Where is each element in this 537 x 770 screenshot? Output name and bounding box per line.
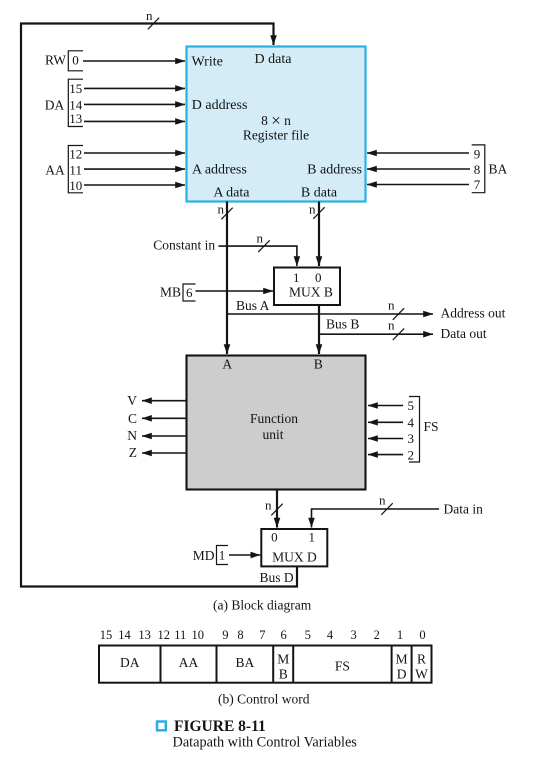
svg-text:1: 1 [219,548,226,563]
svg-text:8: 8 [237,628,243,642]
svg-text:B data: B data [301,185,338,200]
svg-text:MB: MB [160,285,181,300]
svg-text:A: A [222,357,232,372]
svg-text:(b) Control word: (b) Control word [218,692,310,707]
svg-text:A data: A data [213,185,250,200]
svg-text:15: 15 [100,628,113,642]
svg-text:14: 14 [118,628,131,642]
svg-text:10: 10 [69,178,82,193]
svg-text:DA: DA [45,97,65,112]
svg-text:7: 7 [474,177,481,192]
svg-text:MUX D: MUX D [272,549,317,564]
svg-text:0: 0 [315,270,322,285]
svg-text:M: M [396,652,408,667]
svg-text:A address: A address [192,163,247,178]
svg-text:4: 4 [408,415,415,430]
svg-text:BA: BA [235,655,254,670]
svg-text:n: n [265,498,272,513]
svg-text:AA: AA [179,655,199,670]
svg-text:FS: FS [424,419,439,434]
svg-text:9: 9 [222,628,228,642]
svg-text:Data out: Data out [441,326,487,341]
svg-text:n: n [257,231,264,246]
svg-text:Bus B: Bus B [326,317,359,332]
svg-text:n: n [309,202,316,217]
svg-text:V: V [127,393,137,408]
svg-text:2: 2 [408,447,415,462]
svg-text:Bus A: Bus A [236,298,270,313]
svg-text:AA: AA [45,163,65,178]
svg-text:Register file: Register file [243,127,309,142]
svg-text:7: 7 [259,628,265,642]
svg-text:15: 15 [69,81,82,96]
svg-text:Data in: Data in [444,502,484,517]
svg-text:W: W [415,667,428,682]
svg-text:B: B [314,357,323,372]
svg-text:8: 8 [474,162,481,177]
svg-text:0: 0 [419,628,425,642]
svg-text:Write: Write [192,55,223,70]
svg-text:1: 1 [308,530,315,545]
svg-text:MD: MD [193,548,215,563]
svg-text:R: R [417,652,426,667]
svg-text:n: n [379,493,386,508]
svg-text:3: 3 [350,628,356,642]
svg-text:12: 12 [69,146,82,161]
svg-text:DA: DA [120,655,140,670]
svg-text:1: 1 [397,628,403,642]
svg-text:unit: unit [262,427,283,442]
svg-text:N: N [127,428,137,443]
svg-text:Constant in: Constant in [153,237,215,252]
svg-text:M: M [277,652,289,667]
svg-text:RW: RW [45,53,66,68]
svg-text:12: 12 [157,628,170,642]
svg-text:n: n [218,202,225,217]
svg-text:D address: D address [192,98,248,113]
svg-text:4: 4 [327,628,334,642]
svg-text:Function: Function [250,411,298,426]
svg-text:FIGURE 8-11: FIGURE 8-11 [174,718,266,735]
svg-text:6: 6 [280,628,286,642]
svg-text:B: B [279,667,288,682]
svg-text:5: 5 [408,398,415,413]
svg-text:11: 11 [69,163,82,178]
svg-text:Bus D: Bus D [260,570,294,585]
svg-text:1: 1 [293,270,300,285]
svg-text:9: 9 [474,147,481,162]
svg-text:0: 0 [72,53,79,68]
svg-text:3: 3 [408,431,415,446]
svg-text:D: D [397,667,407,682]
svg-text:5: 5 [305,628,311,642]
svg-text:D data: D data [255,52,293,67]
svg-text:13: 13 [69,111,82,126]
svg-text:Datapath with Control Variable: Datapath with Control Variables [173,734,358,750]
svg-text:0: 0 [271,530,278,545]
svg-text:(a) Block diagram: (a) Block diagram [213,598,312,613]
svg-text:Address out: Address out [441,306,506,321]
svg-text:MUX B: MUX B [289,284,333,299]
svg-text:C: C [128,411,137,426]
svg-text:n: n [146,8,153,23]
svg-text:n: n [388,298,395,313]
svg-text:FS: FS [335,659,350,674]
svg-text:n: n [388,318,395,333]
svg-text:Z: Z [129,445,137,460]
svg-text:2: 2 [374,628,380,642]
svg-text:11: 11 [174,628,186,642]
svg-text:10: 10 [191,628,204,642]
svg-text:B address: B address [307,163,362,178]
svg-text:13: 13 [138,628,151,642]
svg-text:6: 6 [186,285,193,300]
svg-text:BA: BA [489,162,508,177]
